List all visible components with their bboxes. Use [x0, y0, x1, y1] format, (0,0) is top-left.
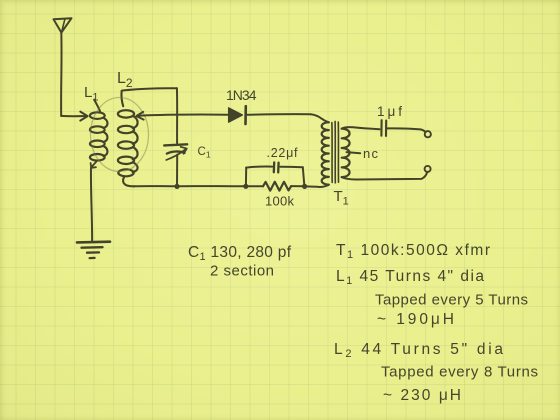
- RC loop left vertical: [245, 168, 247, 187]
- wire C1 to bottom rail: [176, 155, 178, 187]
- junction dot RC left: [243, 184, 248, 189]
- svg-text:~ 230 μH: ~ 230 μH: [383, 387, 461, 404]
- nc stub: [347, 152, 361, 153]
- wire diode to T1 primary: [246, 113, 311, 116]
- wire T1 primary bottom to rail: [305, 185, 329, 187]
- svg-text:L2 44 Turns 5" dia: L2 44 Turns 5" dia: [334, 341, 503, 360]
- arrowhead tap into L2: [136, 112, 143, 120]
- wire L2 tap to diode: [139, 115, 229, 116]
- RC loop right vertical: [303, 167, 305, 186]
- svg-text:1N34: 1N34: [226, 87, 257, 103]
- junction dot RC right: [302, 184, 307, 189]
- svg-text:nc: nc: [363, 146, 379, 161]
- wire L2 top to C1 branch: [122, 88, 177, 90]
- wire rail to resistor: [246, 185, 263, 187]
- arrow tap at L1 bottom: [91, 162, 97, 168]
- wire antenna lead down: [60, 33, 62, 116]
- svg-text:100k: 100k: [265, 194, 295, 209]
- RC loop top right wire: [280, 166, 302, 169]
- RC loop top left wire: [246, 167, 272, 168]
- wire T1 secondary bottom to terminal: [342, 172, 428, 179]
- coil L2: [118, 91, 138, 186]
- svg-text:1μf: 1μf: [377, 104, 402, 119]
- transformer T1 secondary winding: [342, 129, 350, 177]
- capacitor 1uf: [381, 120, 386, 136]
- terminal top: [425, 131, 431, 137]
- wire C1 branch down: [176, 88, 178, 143]
- arrowhead into L1: [80, 112, 87, 121]
- capacitor C1 (variable): [164, 144, 187, 160]
- wire L1 bottom to ground: [91, 168, 92, 241]
- svg-text:C1 130, 280 pf: C1 130, 280 pf: [188, 244, 292, 263]
- svg-text:T1: T1: [334, 188, 349, 208]
- svg-text:L2: L2: [117, 70, 133, 90]
- svg-text:T1 100k:500Ω xfmr: T1 100k:500Ω xfmr: [336, 242, 490, 261]
- capacitor .22uf: [274, 162, 279, 172]
- svg-text:C1: C1: [198, 146, 211, 160]
- svg-text:L1 45 Turns 4" dia: L1 45 Turns 4" dia: [336, 268, 484, 287]
- wire T1 secondary top to cap: [342, 127, 380, 129]
- wire resistor to RC right: [291, 185, 304, 187]
- transformer T1 primary winding: [322, 122, 329, 184]
- ground: [77, 242, 110, 258]
- faint coupling circle: [91, 98, 149, 172]
- svg-text:L1: L1: [84, 84, 98, 104]
- svg-text:~ 190μH: ~ 190μH: [377, 311, 454, 328]
- svg-text:Tapped every 5 Turns: Tapped every 5 Turns: [375, 292, 528, 309]
- bottom rail wire: [134, 185, 245, 187]
- resistor 100k: [263, 182, 291, 191]
- coil L1: [90, 100, 108, 161]
- svg-text:2 section: 2 section: [210, 263, 274, 280]
- diode D1 1N34: [229, 106, 246, 124]
- wire cap to top terminal: [387, 128, 426, 132]
- wire antenna to L1 tap: [61, 115, 85, 117]
- transformer T1 core: [332, 121, 339, 182]
- antenna: [54, 18, 72, 32]
- wire lead into T1 primary top: [311, 114, 329, 122]
- terminal bottom: [425, 166, 431, 172]
- svg-text:.22μf: .22μf: [267, 146, 299, 160]
- svg-text:Tapped every 8 Turns: Tapped every 8 Turns: [381, 364, 538, 381]
- junction dot C1/rail: [174, 184, 179, 189]
